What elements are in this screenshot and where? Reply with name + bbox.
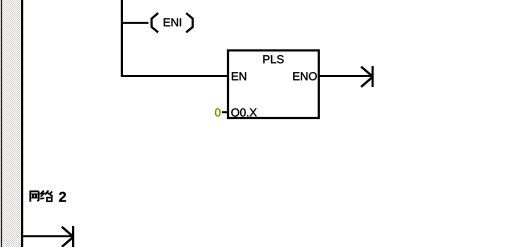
wire: ENO output: [319, 75, 372, 77]
window left border: [1, 0, 2, 247]
pin stub Q0.X: [222, 111, 229, 113]
wire: vertical branch line network 1: [121, 0, 123, 77]
coil ENI: label: [164, 18, 181, 26]
wire: network 2 rung: [23, 235, 73, 237]
left margin dithered bar: [2, 0, 21, 247]
pin label ENO: [293, 72, 316, 80]
continuation arrow (network 1 output): [361, 66, 374, 87]
network 2 title: 络 glyph: [40, 190, 53, 201]
network 2 title: number 2: [59, 192, 66, 202]
PLS box title: [263, 55, 283, 63]
pin label EN: [232, 72, 246, 80]
pin label Q0.X: [231, 108, 256, 118]
coil ENI: right parenthesis: [187, 14, 193, 32]
operand value 0 (input to Q0.X pin): [215, 108, 221, 116]
power rail (left bus bar): [21, 0, 23, 247]
PLS box U1 outline: [228, 50, 319, 118]
wire: horizontal to PLS EN input: [121, 75, 229, 77]
wire: horizontal to ENI coil: [121, 22, 149, 24]
network 2 title: 网 glyph: [29, 191, 38, 201]
continuation arrow (network 2, clipped at bottom): [62, 226, 74, 247]
coil ENI: left parenthesis: [152, 14, 158, 32]
